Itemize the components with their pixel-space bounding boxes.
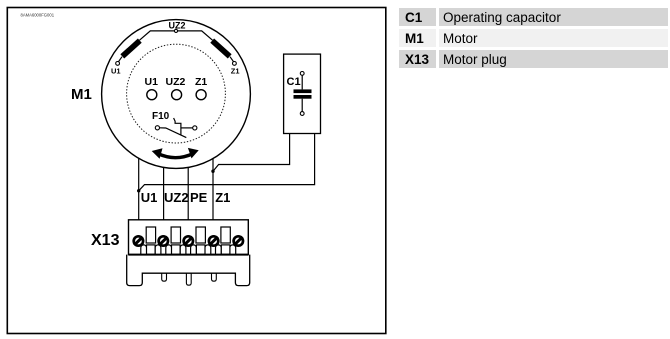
plug X13 pin 1 bbox=[162, 273, 167, 281]
screw terminal 5 bbox=[234, 236, 243, 245]
motor M1 outer circle bbox=[102, 20, 251, 169]
winding left bbox=[122, 41, 140, 57]
svg-text:PE: PE bbox=[190, 190, 208, 205]
screw terminal 1 bbox=[134, 236, 143, 245]
screw terminal 4 bbox=[209, 236, 218, 245]
capacitor C1 top terminal bbox=[300, 72, 304, 76]
junction on Z1 wire bbox=[211, 170, 214, 173]
svg-text:Z1: Z1 bbox=[195, 76, 207, 88]
svg-text:Z1: Z1 bbox=[215, 190, 230, 205]
wire motor UZ2 to plug bbox=[163, 167, 165, 220]
legend row C1 bbox=[399, 8, 669, 26]
svg-text:Z1: Z1 bbox=[231, 66, 240, 75]
wire winding-right lead to terminal Z1 bbox=[230, 57, 234, 62]
clamp unit 1 bbox=[141, 227, 161, 254]
svg-text:UZ2: UZ2 bbox=[166, 76, 186, 88]
terminal circle Z1 bbox=[196, 90, 206, 100]
plug X13 pin 2 (middle, long) bbox=[186, 273, 191, 285]
motor M1 inner circle bbox=[127, 44, 226, 143]
terminal U1 circle (winding end) bbox=[116, 62, 120, 66]
legend row X13 bbox=[399, 50, 669, 68]
clamp unit 4 bbox=[216, 227, 236, 254]
thermal contact F10 blade bbox=[160, 128, 187, 138]
svg-text:UZ2: UZ2 bbox=[164, 190, 189, 205]
rotation direction arrow bbox=[158, 153, 194, 157]
wire winding-left lead to terminal U1 bbox=[118, 57, 122, 62]
svg-text:UZ2: UZ2 bbox=[169, 20, 186, 30]
wire motor PE to plug bbox=[187, 167, 189, 220]
capacitor C1 bottom lead bbox=[301, 99, 303, 112]
wire winding left to node UZ2 bbox=[140, 31, 175, 40]
screw terminal 2 bbox=[159, 236, 168, 245]
wire motor Z1 to plug bbox=[212, 159, 214, 220]
svg-text:U1: U1 bbox=[111, 66, 121, 75]
svg-text:U1: U1 bbox=[141, 190, 158, 205]
terminal Z1 circle (winding end) bbox=[233, 62, 237, 66]
thermal contact F10 release actuator bbox=[174, 118, 181, 135]
capacitor C1 top lead bbox=[301, 75, 303, 89]
capacitor C1 bottom terminal bbox=[300, 112, 304, 116]
terminal circle UZ2 bbox=[172, 90, 182, 100]
clamp unit 2 bbox=[166, 227, 186, 254]
svg-text:F10: F10 bbox=[152, 111, 170, 122]
svg-text:U1: U1 bbox=[145, 76, 159, 88]
wire winding right to node UZ2 bbox=[178, 31, 213, 40]
motor plug X13 terminal strip bbox=[129, 220, 249, 255]
wire U1 to capacitor bbox=[139, 134, 315, 191]
plug X13 lower housing bbox=[127, 255, 250, 286]
wire motor U1 to plug bbox=[138, 158, 140, 220]
plug X13 pin 3 bbox=[212, 273, 217, 281]
svg-text:C1: C1 bbox=[287, 76, 301, 88]
capacitor C1 enclosure box bbox=[284, 54, 321, 133]
junction on U1 wire bbox=[137, 189, 140, 192]
clamp unit 3 bbox=[191, 227, 211, 254]
winding right bbox=[212, 41, 230, 57]
node UZ2 bbox=[174, 29, 177, 32]
diagram border frame bbox=[7, 8, 386, 334]
thermal contact F10 left terminal bbox=[155, 126, 159, 130]
thermal contact F10 right terminal bbox=[193, 126, 197, 130]
plug strip bottom edge (thick) bbox=[129, 254, 249, 256]
legend row M1 bbox=[399, 29, 669, 47]
terminal circle U1 bbox=[147, 90, 157, 100]
svg-text:X13: X13 bbox=[91, 232, 120, 249]
capacitor C1 plate 1 bbox=[294, 89, 312, 93]
thermal contact F10 fixed lead bbox=[181, 127, 193, 129]
capacitor C1 plate 2 bbox=[294, 95, 312, 99]
svg-text:M1: M1 bbox=[71, 86, 92, 103]
screw terminal 3 bbox=[184, 236, 193, 245]
wire Z1 to capacitor bbox=[213, 134, 290, 172]
svg-text:8AMA6000FG001: 8AMA6000FG001 bbox=[21, 13, 55, 18]
legend table bbox=[399, 8, 669, 71]
